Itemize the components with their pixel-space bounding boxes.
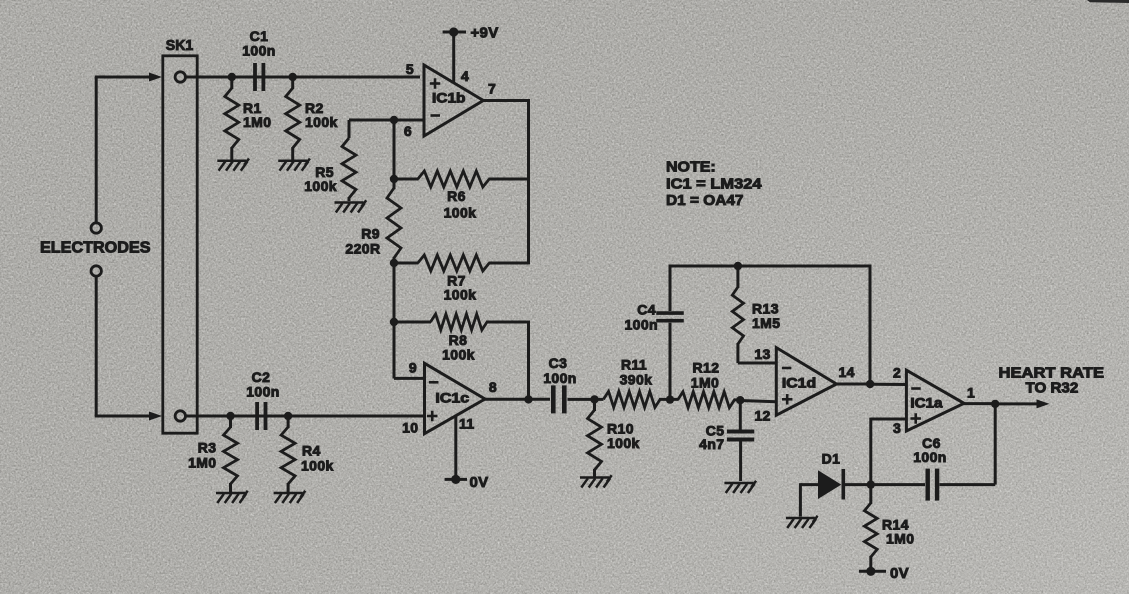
svg-text:100n: 100n: [242, 43, 276, 59]
svg-text:7: 7: [488, 81, 496, 97]
svg-text:C3: C3: [549, 355, 568, 371]
svg-text:8: 8: [489, 379, 497, 395]
svg-text:100k: 100k: [444, 205, 477, 221]
svg-text:D1: D1: [822, 450, 841, 466]
svg-text:1M0: 1M0: [188, 455, 216, 471]
svg-text:1M5: 1M5: [752, 315, 780, 331]
svg-text:ELECTRODES: ELECTRODES: [40, 240, 151, 257]
svg-text:R11: R11: [621, 357, 647, 373]
svg-text:1M0: 1M0: [243, 114, 271, 130]
svg-text:R12: R12: [693, 360, 720, 376]
svg-text:1M0: 1M0: [691, 375, 719, 391]
svg-text:IC1c: IC1c: [435, 391, 469, 406]
svg-text:220R: 220R: [345, 241, 380, 257]
svg-text:100k: 100k: [607, 435, 640, 451]
svg-text:100k: 100k: [442, 347, 475, 363]
svg-text:390k: 390k: [620, 372, 653, 388]
svg-text:6: 6: [404, 123, 412, 139]
svg-text:1: 1: [967, 385, 975, 401]
svg-text:0V: 0V: [470, 474, 489, 491]
svg-text:R4: R4: [302, 443, 321, 459]
svg-text:100n: 100n: [913, 449, 947, 465]
svg-text:4: 4: [461, 68, 469, 84]
svg-text:R3: R3: [198, 440, 217, 456]
svg-text:SK1: SK1: [166, 37, 194, 54]
svg-text:C4: C4: [637, 302, 656, 318]
svg-text:100n: 100n: [543, 370, 577, 386]
svg-text:2: 2: [893, 365, 901, 381]
svg-text:3: 3: [893, 420, 901, 436]
svg-text:R6: R6: [447, 188, 466, 204]
svg-text:4n7: 4n7: [699, 436, 724, 452]
svg-text:IC1 = LM324: IC1 = LM324: [666, 176, 762, 193]
svg-text:100n: 100n: [246, 384, 280, 400]
svg-text:100k: 100k: [301, 458, 334, 474]
svg-text:10: 10: [402, 420, 418, 436]
svg-text:R9: R9: [361, 225, 380, 241]
svg-text:IC1a: IC1a: [910, 396, 943, 411]
svg-text:100k: 100k: [444, 287, 477, 303]
svg-text:12: 12: [754, 408, 770, 424]
svg-text:TO R32: TO R32: [1026, 380, 1079, 397]
svg-text:5: 5: [406, 61, 414, 77]
svg-text:NOTE:: NOTE:: [666, 159, 716, 176]
svg-text:+9V: +9V: [471, 25, 499, 42]
svg-text:100n: 100n: [624, 317, 658, 333]
svg-text:100k: 100k: [305, 114, 338, 130]
svg-text:IC1d: IC1d: [782, 375, 816, 390]
svg-text:0V: 0V: [890, 565, 909, 582]
svg-text:1M0: 1M0: [886, 531, 914, 547]
svg-text:14: 14: [839, 364, 855, 380]
svg-text:IC1b: IC1b: [432, 90, 466, 105]
svg-text:9: 9: [409, 360, 417, 376]
svg-text:13: 13: [754, 346, 770, 362]
svg-text:11: 11: [459, 416, 475, 432]
svg-text:100k: 100k: [304, 178, 337, 194]
svg-text:D1 = OA47: D1 = OA47: [666, 192, 744, 209]
